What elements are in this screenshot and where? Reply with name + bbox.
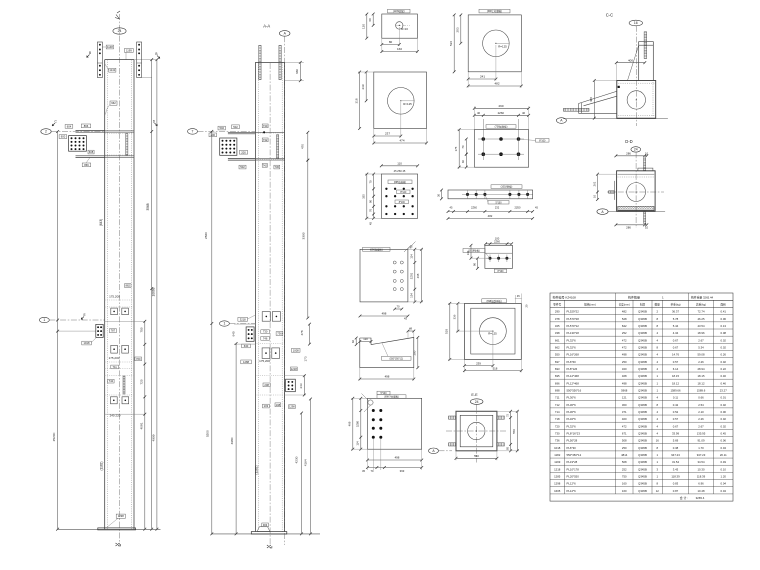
svg-text:130: 130 xyxy=(466,250,470,255)
svg-text:R=125: R=125 xyxy=(498,45,507,49)
col2 dim 243 xyxy=(303,374,306,396)
D5 ext lt xyxy=(365,173,381,175)
svg-text:23.27: 23.27 xyxy=(720,388,727,392)
svg-text:472: 472 xyxy=(622,338,627,342)
svg-text:长度(mm): 长度(mm) xyxy=(619,303,630,307)
svg-text:1182: 1182 xyxy=(554,453,560,457)
svg-text:构件重量 3265.44: 构件重量 3265.44 xyxy=(691,296,714,300)
svg-text:250: 250 xyxy=(622,360,627,364)
svg-text:Q345B: Q345B xyxy=(638,453,647,457)
svg-text:Q345B: Q345B xyxy=(638,403,647,407)
D12 inner square xyxy=(471,308,515,354)
svg-text:714: 714 xyxy=(555,410,560,414)
svg-text:10: 10 xyxy=(592,195,596,198)
K1 top edge extension right xyxy=(134,59,157,61)
D12 ext lm xyxy=(456,330,493,332)
svg-text:8*100: 8*100 xyxy=(497,271,504,273)
label 866b leader xyxy=(86,157,90,163)
svg-text:25200: 25200 xyxy=(52,432,56,441)
label 1199 leader xyxy=(125,52,127,59)
D8 ext br xyxy=(413,368,415,381)
svg-text:711: 711 xyxy=(555,396,560,400)
svg-text:4: 4 xyxy=(656,410,658,414)
K1 top splice plate left mid xyxy=(97,62,102,64)
svg-text:1298: 1298 xyxy=(289,406,295,409)
K1 weld rod at beam xyxy=(126,134,128,156)
svg-text:31.54: 31.54 xyxy=(672,460,679,464)
label 732 xyxy=(262,138,268,142)
svg-text:1: 1 xyxy=(223,322,225,326)
svg-text:470: 470 xyxy=(300,144,304,149)
svg-text:5.78: 5.78 xyxy=(673,317,679,321)
K1 side plate bolts 4x4 xyxy=(71,137,85,150)
D9 plate outline xyxy=(368,398,422,449)
svg-text:0.57: 0.57 xyxy=(673,417,679,421)
svg-text:24: 24 xyxy=(475,400,479,404)
svg-text:3Ζ91: 3Ζ91 xyxy=(410,272,414,279)
svg-text:474: 474 xyxy=(399,139,404,143)
K1 splice hidden b xyxy=(105,306,134,308)
svg-text:378: 378 xyxy=(555,317,560,321)
D9 title a xyxy=(377,391,390,395)
D12 top-right corner ticks xyxy=(515,294,522,304)
svg-text:0.52: 0.52 xyxy=(673,410,679,414)
D-D left ext1 xyxy=(598,173,617,175)
col2 bottom section mark xyxy=(267,545,272,548)
svg-text:0.06: 0.06 xyxy=(721,439,727,443)
C-C bubble 16 xyxy=(629,20,642,26)
svg-text:数量: 数量 xyxy=(655,303,661,307)
label 1141 leader xyxy=(105,64,109,71)
D1 ext bottom right xyxy=(416,38,418,53)
K1 splice plate B2 xyxy=(122,345,129,353)
D11 divider xyxy=(485,252,513,254)
svg-text:518: 518 xyxy=(493,367,498,371)
svg-text:Q345B: Q345B xyxy=(638,489,647,493)
D2 dim474 line xyxy=(372,142,428,145)
label 630 xyxy=(242,344,251,348)
K1 left dim x57.6 xyxy=(56,130,59,530)
svg-text:(695连接板): (695连接板) xyxy=(394,180,406,184)
D7 title label xyxy=(363,247,391,251)
col2 ext y395 xyxy=(285,394,306,396)
svg-text:4: 4 xyxy=(656,338,658,342)
D3 ext bl xyxy=(467,72,469,88)
svg-text:18.15: 18.15 xyxy=(672,374,679,378)
svg-text:PL8*126: PL8*126 xyxy=(567,367,578,371)
D9 left dims xyxy=(359,397,362,451)
C-C dim400 line xyxy=(615,61,646,64)
svg-text:232: 232 xyxy=(495,206,500,210)
col2 right flange outer xyxy=(284,62,286,531)
svg-text:2: 2 xyxy=(656,310,658,314)
K1 hidden y395 xyxy=(105,394,134,396)
svg-text:合 计 :: 合 计 : xyxy=(680,495,688,500)
D-D main box xyxy=(617,171,656,211)
svg-text:(550*350*12): (550*350*12) xyxy=(389,358,403,360)
K1 base plate xyxy=(98,528,136,530)
D-D inner dotted top xyxy=(618,176,655,178)
svg-text:Q345B: Q345B xyxy=(638,331,647,335)
D-D baseline xyxy=(608,211,665,213)
svg-text:742: 742 xyxy=(263,163,268,167)
D-D bottom rod xyxy=(644,212,646,224)
D9 bottom dims xyxy=(366,466,423,469)
D12 ext lt xyxy=(448,302,465,304)
D-D bottom dim line xyxy=(615,223,649,226)
D4 ext lt xyxy=(458,129,475,131)
label 108 xyxy=(275,403,281,407)
svg-text:(698加劲环板): (698加劲环板) xyxy=(486,299,501,303)
svg-text:730: 730 xyxy=(263,330,268,334)
table header text xyxy=(553,295,727,307)
svg-text:4164: 4164 xyxy=(303,459,307,466)
C-C dim400 vert xyxy=(593,79,596,120)
svg-text:1288: 1288 xyxy=(243,360,249,364)
svg-text:75: 75 xyxy=(505,414,509,417)
svg-text:0.22: 0.22 xyxy=(721,367,727,371)
label 502b xyxy=(232,125,240,129)
svg-text:720: 720 xyxy=(139,379,143,384)
svg-text:695: 695 xyxy=(555,374,560,378)
D5 inner label b xyxy=(395,200,409,204)
label 742b xyxy=(262,163,267,167)
svg-text:0.49: 0.49 xyxy=(721,460,727,464)
svg-text:173: 173 xyxy=(304,356,308,361)
svg-text:2820: 2820 xyxy=(204,232,208,239)
svg-text:400: 400 xyxy=(589,97,593,102)
svg-text:0.02: 0.02 xyxy=(721,345,727,349)
K1 splice hidden a xyxy=(105,299,134,301)
svg-text:502: 502 xyxy=(219,126,224,130)
D11 label leader xyxy=(485,253,490,259)
svg-text:730: 730 xyxy=(275,165,280,169)
svg-text:60: 60 xyxy=(368,18,372,22)
D12 dim336 left xyxy=(457,302,460,333)
c2 plate A1 bolt xyxy=(266,316,268,318)
col2 baseline xyxy=(211,533,320,535)
svg-text:PL529*22: PL529*22 xyxy=(567,310,580,314)
col2 beam1 top xyxy=(228,131,256,133)
D11 dim90 xyxy=(476,257,479,270)
svg-text:PL32*6: PL32*6 xyxy=(567,424,577,428)
D-D top dim line xyxy=(615,154,649,157)
D8 dim82 xyxy=(355,337,358,346)
D-D centerline h xyxy=(607,191,664,193)
svg-text:面积: 面积 xyxy=(721,303,727,307)
svg-text:45°: 45° xyxy=(408,244,414,250)
svg-text:45: 45 xyxy=(535,206,538,210)
label 1148 xyxy=(106,45,113,49)
svg-text:(696连接板): (696连接板) xyxy=(370,247,383,251)
col2 weld dot xyxy=(263,131,265,133)
svg-text:2Ζ60: 2Ζ60 xyxy=(498,111,505,115)
svg-text:16: 16 xyxy=(634,21,638,25)
beam2 top line xyxy=(76,155,105,157)
svg-text:(698下柱脚板): (698下柱脚板) xyxy=(384,395,399,399)
svg-text:947.23: 947.23 xyxy=(697,453,706,457)
C-C box left weld dot xyxy=(618,86,620,88)
D5 ext lb xyxy=(365,217,381,219)
svg-text:PL32*6: PL32*6 xyxy=(567,417,577,421)
dim line x151.7 (3568) xyxy=(150,58,153,530)
label 502c xyxy=(239,165,246,169)
D3 dim203 line xyxy=(459,14,462,45)
label 730b xyxy=(274,165,280,169)
D2 dim239 line xyxy=(365,71,368,103)
D5 bolts 4x4 xyxy=(385,188,414,216)
svg-text:2.10: 2.10 xyxy=(698,410,704,414)
svg-text:(1199实配): (1199实配) xyxy=(393,9,405,13)
svg-text:PL6*60: PL6*60 xyxy=(567,360,577,364)
C-C box right dotted xyxy=(652,82,654,117)
D12 ext br xyxy=(520,360,522,373)
svg-text:10: 10 xyxy=(645,225,649,229)
svg-text:0.02: 0.02 xyxy=(721,424,727,428)
col2 left flange outer xyxy=(254,62,256,531)
D7 holes 2x4 xyxy=(393,261,403,291)
svg-text:239: 239 xyxy=(476,362,481,366)
svg-text:33.99: 33.99 xyxy=(672,431,679,435)
svg-text:243: 243 xyxy=(299,383,303,388)
svg-text:43.54: 43.54 xyxy=(698,324,705,328)
label 746 xyxy=(261,336,270,340)
svg-text:70: 70 xyxy=(461,145,465,149)
D4 bolt crosslines xyxy=(478,119,524,160)
col2 beam2 across xyxy=(255,158,284,160)
svg-text:1.20: 1.20 xyxy=(721,475,727,479)
D6 strip outline xyxy=(448,190,533,199)
K1 beam2b across column xyxy=(105,156,134,158)
label 742 xyxy=(108,379,115,383)
K1 plate bottom ext xyxy=(142,77,152,79)
svg-text:PL19*28: PL19*28 xyxy=(567,460,578,464)
C-C stub top1 xyxy=(639,41,654,43)
D-D inner line top xyxy=(618,173,655,175)
svg-text:118.39: 118.39 xyxy=(697,475,706,479)
svg-text:746: 746 xyxy=(263,336,268,340)
svg-text:C: C xyxy=(54,120,57,124)
svg-text:Q345B: Q345B xyxy=(638,388,647,392)
D9 dim 498c xyxy=(366,459,423,462)
E-E outer plate xyxy=(456,411,497,451)
svg-text:C-C: C-C xyxy=(606,13,613,18)
svg-text:3Ζ80: 3Ζ80 xyxy=(356,420,360,427)
plate C2 bolt xyxy=(125,400,127,402)
svg-text:总重(kg): 总重(kg) xyxy=(696,303,706,307)
D9 bolts 2x4 xyxy=(372,409,383,439)
col2 splice plate B1 xyxy=(262,348,270,359)
svg-text:325: 325 xyxy=(555,324,560,328)
D4 dim175 line xyxy=(458,128,461,168)
E-E vert centerline xyxy=(475,405,477,463)
svg-text:1: 1 xyxy=(656,460,658,464)
svg-text:0.38: 0.38 xyxy=(673,446,679,450)
D6 bolts row xyxy=(466,193,529,196)
label 1918 leader xyxy=(91,337,96,342)
svg-text:0.46: 0.46 xyxy=(721,374,727,378)
svg-text:3.43: 3.43 xyxy=(673,467,679,471)
D12 dim518 bottom xyxy=(463,369,523,372)
svg-text:1218: 1218 xyxy=(554,467,561,471)
svg-text:18.96: 18.96 xyxy=(698,331,705,335)
svg-text:4: 4 xyxy=(656,431,658,435)
D4 leader label 8-100 xyxy=(536,139,550,143)
svg-text:PL32*6: PL32*6 xyxy=(567,338,577,342)
svg-text:498: 498 xyxy=(622,381,627,385)
D4 ext right xyxy=(528,106,530,129)
svg-text:A: A xyxy=(560,119,563,123)
svg-text:730: 730 xyxy=(555,431,560,435)
col2 centerline xyxy=(269,63,271,545)
D4 dim60 line xyxy=(465,153,468,169)
svg-text:286: 286 xyxy=(626,225,631,229)
K1 right flange outer xyxy=(133,60,135,530)
svg-text:Q345B: Q345B xyxy=(638,410,647,414)
label 1918 xyxy=(82,341,92,345)
svg-text:28.94: 28.94 xyxy=(698,367,705,371)
svg-text:Q345B: Q345B xyxy=(638,431,647,435)
D9 ext lb xyxy=(351,448,368,450)
C-C main box xyxy=(617,81,656,119)
svg-text:472: 472 xyxy=(622,345,627,349)
col2 side plate bolts 4x4 xyxy=(222,140,236,154)
D1 plate outline xyxy=(382,14,418,38)
svg-text:160: 160 xyxy=(397,47,402,51)
C-C hole circle xyxy=(627,91,645,109)
svg-text:A-A: A-A xyxy=(263,24,270,29)
E-E bubble A xyxy=(429,448,439,454)
svg-text:697: 697 xyxy=(555,360,560,364)
svg-text:(736加劲板): (736加劲板) xyxy=(495,124,508,128)
svg-text:550: 550 xyxy=(474,454,479,458)
D9 ext bl2 xyxy=(367,449,369,470)
E-E hole circle xyxy=(468,422,485,439)
svg-text:16: 16 xyxy=(656,439,660,443)
svg-text:330: 330 xyxy=(295,69,299,74)
D1 dim120 line xyxy=(365,13,368,40)
label 760 xyxy=(135,357,142,361)
label 1288 xyxy=(241,360,252,364)
svg-text:5.34: 5.34 xyxy=(698,345,704,349)
svg-text:8: 8 xyxy=(656,482,658,486)
D1 ext bottom mid xyxy=(398,27,400,46)
svg-text:252: 252 xyxy=(622,467,627,471)
label 502a xyxy=(218,126,225,130)
D8 dim120 xyxy=(358,340,372,343)
gridline 2 dashdot xyxy=(51,131,104,133)
svg-text:E: E xyxy=(84,313,86,317)
D2 ext br xyxy=(426,129,428,145)
col2 beam1 across xyxy=(255,131,284,133)
svg-text:1018: 1018 xyxy=(554,446,561,450)
D1 dim60 line xyxy=(372,13,375,27)
D11 label 8-100 xyxy=(494,269,506,273)
label 866b xyxy=(82,163,91,167)
D2 ext lt xyxy=(358,71,374,73)
svg-text:4980: 4980 xyxy=(230,437,234,444)
D2 hole circle xyxy=(388,88,415,115)
E-E dim550 right xyxy=(516,410,519,452)
label 1031 xyxy=(263,404,270,408)
svg-text:0.87: 0.87 xyxy=(673,489,679,493)
svg-text:Q345B: Q345B xyxy=(638,439,647,443)
svg-text:0.67: 0.67 xyxy=(673,345,679,349)
svg-text:2.54: 2.54 xyxy=(698,403,704,407)
dim line x144.8 xyxy=(143,320,146,531)
svg-text:882: 882 xyxy=(126,284,131,288)
beam2 bottom line xyxy=(76,156,105,158)
D5 left dims xyxy=(372,173,375,220)
D3 ext bm xyxy=(495,45,497,81)
C-C stub left xyxy=(638,42,640,81)
col2 splice plate A1 xyxy=(262,312,270,322)
section arrow C xyxy=(52,120,57,126)
D11 label 1018 xyxy=(463,249,485,253)
col2 dim 330 line xyxy=(299,61,302,82)
svg-text:8*140: 8*140 xyxy=(400,192,407,194)
svg-text:8: 8 xyxy=(656,446,658,450)
svg-text:498: 498 xyxy=(395,456,400,460)
col2 beam2b across xyxy=(255,159,284,161)
label 3218 xyxy=(238,317,248,321)
svg-text:903: 903 xyxy=(263,523,268,527)
svg-text:604: 604 xyxy=(67,124,72,128)
svg-text:PL20*550: PL20*550 xyxy=(567,475,580,479)
svg-text:0.83: 0.83 xyxy=(673,482,679,486)
svg-text:698: 698 xyxy=(555,388,560,392)
svg-text:0.13: 0.13 xyxy=(721,324,727,328)
D3 title label xyxy=(479,9,510,13)
D12 radius leader xyxy=(480,330,493,332)
C-C box top dotted xyxy=(618,82,654,84)
svg-text:90: 90 xyxy=(472,263,476,266)
K1 beam level hidden line2 xyxy=(105,154,134,156)
label 208 xyxy=(263,383,270,387)
svg-text:6.14: 6.14 xyxy=(673,367,679,371)
svg-text:4: 4 xyxy=(656,360,658,364)
D4 ext lb xyxy=(458,166,475,168)
svg-text:Q345B: Q345B xyxy=(638,417,647,421)
D2 dim318 line xyxy=(358,71,361,130)
svg-text:508: 508 xyxy=(622,460,627,464)
D3 dim482 line xyxy=(467,85,523,88)
D5 title label xyxy=(388,180,412,184)
svg-text:30: 30 xyxy=(436,194,440,197)
svg-text:(1018垫板): (1018垫板) xyxy=(468,249,480,253)
svg-text:482: 482 xyxy=(488,214,493,218)
svg-text:45: 45 xyxy=(450,206,453,210)
K1 splice plate A2 xyxy=(122,308,129,315)
svg-text:600: 600 xyxy=(61,135,66,139)
svg-text:40: 40 xyxy=(522,111,526,115)
K1 dim ext y321 xyxy=(105,320,145,322)
svg-text:2.26: 2.26 xyxy=(698,360,704,364)
E-E ext rb xyxy=(497,450,519,452)
svg-text:0.11: 0.11 xyxy=(673,396,679,400)
svg-text:85: 85 xyxy=(505,446,509,449)
svg-text:PL12*468: PL12*468 xyxy=(567,381,580,385)
svg-text:1589.6: 1589.6 xyxy=(697,388,706,392)
plate C1 bolt xyxy=(113,400,115,402)
K1 left bolt plate mid xyxy=(96,324,103,337)
svg-text:320: 320 xyxy=(622,367,627,371)
svg-text:1298: 1298 xyxy=(118,514,124,518)
svg-text:(643): (643) xyxy=(99,219,103,226)
svg-text:5.69: 5.69 xyxy=(673,439,679,443)
svg-text:Q345B: Q345B xyxy=(638,310,647,314)
svg-text:R=125: R=125 xyxy=(488,331,497,335)
